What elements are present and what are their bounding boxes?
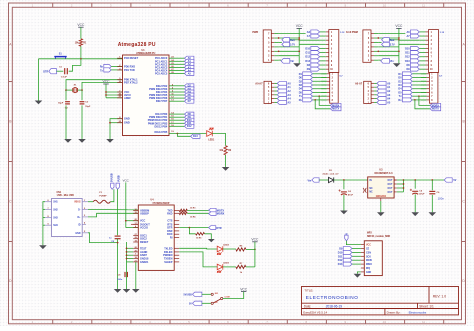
junction crystal right: [81, 89, 83, 91]
svg-text:100n: 100n: [438, 197, 445, 201]
svg-text:D10: D10: [338, 251, 343, 254]
junction stub2: [377, 50, 379, 52]
junction GND b3: [126, 254, 128, 256]
svg-text:RI: RI: [170, 237, 173, 240]
wire VUSB down (line A): [117, 189, 119, 235]
svg-text:PWR: PWR: [252, 31, 258, 34]
wire U4 GND bus (line B2): [127, 242, 134, 289]
wire D1 to U3 IN: [334, 179, 368, 181]
ground (reset button): [35, 101, 43, 105]
switch SW1 SPDT: [202, 293, 230, 305]
U4 left pin names: [133, 209, 150, 264]
svg-text:VCCIO: VCCIO: [140, 227, 148, 230]
U3 MC33269DT-3.3 regulator: [363, 168, 397, 198]
svg-text:EasyEDA V5.5.14: EasyEDA V5.5.14: [303, 311, 327, 315]
net labels A0-A5: [185, 56, 194, 75]
U4 FT232RL/SSOP IC body: [138, 199, 174, 271]
wire 3V3OUT stub: [131, 223, 138, 225]
header J2 digital 10-pin: [419, 30, 445, 73]
junction DTR: [189, 227, 191, 229]
crystal X1: [66, 85, 82, 93]
svg-text:D13: D13: [305, 60, 310, 63]
header J1 digital 10-pin: [320, 30, 346, 73]
svg-text:11: 11: [422, 320, 425, 324]
svg-text:GND: GND: [366, 272, 371, 274]
net labels D2-D7: [185, 84, 194, 103]
net label MOTX: [187, 208, 224, 212]
svg-text:D11: D11: [306, 52, 311, 55]
net labels MP2 (D9-D13): [338, 247, 361, 267]
resistor R3 1k (TXD): [179, 208, 196, 212]
junction RESET/R1: [80, 58, 82, 60]
svg-text:47uF: 47uF: [419, 193, 425, 196]
wire C1 to RESET: [69, 59, 81, 71]
net flag Rx: [100, 64, 111, 68]
svg-text:REV: 1.0: REV: 1.0: [433, 295, 447, 299]
svg-text:VCC: VCC: [77, 23, 85, 27]
svg-text:D12: D12: [338, 259, 343, 262]
wire LED2 to R6: [223, 248, 236, 250]
wire CN1 D+ to USBDP: [88, 213, 138, 217]
wire XTAL2: [82, 82, 123, 90]
net label D13: [177, 134, 200, 139]
junction C4: [343, 179, 345, 181]
net label MOTX: [330, 107, 341, 111]
wire AREF pin 21: [106, 97, 123, 99]
wire 5V rail: [404, 179, 445, 181]
svg-text:D13: D13: [405, 60, 410, 63]
svg-text:D13: D13: [193, 135, 198, 138]
junction D13: [177, 133, 179, 135]
svg-text:10: 10: [383, 320, 387, 324]
svg-text:IN: IN: [369, 180, 372, 182]
junction bus a: [298, 37, 300, 39]
fuse F1: [88, 192, 110, 203]
net label DTR (FT232): [209, 226, 222, 230]
svg-text:Vin: Vin: [308, 180, 312, 183]
svg-text:3.7V: 3.7V: [290, 44, 295, 47]
svg-text:PD1 TXD: PD1 TXD: [124, 68, 135, 72]
svg-text:100n: 100n: [117, 279, 123, 281]
ground (C2): [64, 139, 72, 143]
svg-text:VCC: VCC: [296, 24, 304, 28]
junction stub: [377, 37, 379, 39]
wire to MORX: [319, 96, 330, 105]
wire Rx to PD0: [111, 66, 122, 68]
wire R7 to VCC: [246, 266, 255, 268]
svg-text:OUT: OUT: [388, 188, 393, 190]
net flag 5V (regulator out): [444, 178, 457, 182]
header J1b serial 8-pin: [321, 73, 343, 104]
wire MP2 GND: [357, 272, 361, 274]
ground (MP2): [354, 274, 362, 278]
net flag 3.3V vertical: [345, 233, 349, 241]
svg-text:VCC: VCC: [251, 238, 259, 242]
net labels A0-A5 (header A1): [277, 81, 291, 104]
svg-text:GND: GND: [124, 121, 130, 125]
ground (line B2): [123, 289, 131, 293]
net flag Batt: [282, 38, 295, 42]
ground (CN1 shield): [39, 245, 47, 249]
junction OUT2: [403, 183, 405, 185]
wire 3.3V to MP2 VCC: [346, 241, 361, 245]
svg-text:SH2: SH2: [53, 210, 58, 212]
capacitor C4 47uF: [339, 180, 354, 211]
svg-text:SH3: SH3: [53, 217, 58, 219]
svg-text:RESET: RESET: [140, 241, 149, 244]
svg-text:NC: NC: [215, 302, 219, 304]
ground (R5): [208, 239, 215, 242]
svg-text:DTR: DTR: [43, 70, 48, 73]
junction bus a: [398, 37, 400, 39]
junction OUT1: [403, 179, 405, 181]
LED1: [207, 128, 215, 142]
svg-text:LED2: LED2: [223, 245, 229, 247]
LED2: [217, 245, 229, 255]
svg-text:CTS: CTS: [167, 220, 172, 223]
junction C6: [431, 179, 433, 181]
resistor R5 1k: [189, 228, 211, 240]
wire TXLED to LED2: [179, 247, 217, 250]
svg-text:D12: D12: [305, 56, 310, 59]
wire XTAL1: [66, 80, 123, 90]
net label MOTX: [430, 107, 441, 111]
svg-text:VBUS: VBUS: [74, 202, 81, 204]
wires header P1 to bus: [279, 34, 306, 61]
svg-text:AREF: AREF: [124, 96, 131, 100]
junction GND b4: [126, 258, 128, 260]
svg-text:Drawn By:: Drawn By:: [387, 311, 401, 315]
svg-text:TEST: TEST: [140, 247, 147, 250]
power flag VCC (AVCC): [103, 80, 111, 98]
junction GND bus: [109, 122, 111, 124]
resistor R2 10k: [219, 146, 232, 167]
ground (C4): [340, 211, 348, 215]
ground (header P1): [293, 63, 301, 67]
net flag 5V/USB (switch): [183, 292, 201, 296]
wire Vin to D1: [319, 179, 328, 181]
wire GND pin 8: [110, 119, 123, 139]
svg-text:0.1uF: 0.1uF: [61, 76, 67, 78]
svg-text:8-13 PWM: 8-13 PWM: [346, 31, 358, 34]
wire fuse to 5V/USB flag: [110, 189, 114, 201]
net label MORX: [430, 103, 441, 107]
U4 right pin names: [163, 210, 179, 264]
svg-text:D11: D11: [405, 52, 410, 55]
svg-text:MC33269DT-3.3: MC33269DT-3.3: [375, 172, 394, 175]
svg-text:1k R5: 1k R5: [196, 238, 202, 240]
ground (line A): [114, 289, 122, 293]
svg-text:RXD: RXD: [167, 212, 172, 215]
svg-text:FUSEF: FUSEF: [99, 195, 107, 197]
svg-text:CSN: CSN: [366, 252, 371, 254]
wire CN1 shield bus: [43, 202, 45, 246]
svg-text:15pF: 15pF: [85, 106, 91, 108]
svg-text:D12: D12: [405, 56, 410, 59]
svg-text:Vin: Vin: [290, 60, 294, 63]
svg-text:VCC: VCC: [366, 245, 371, 247]
U1 right pins group A0-A5: [155, 57, 184, 76]
junction stub2: [278, 50, 280, 52]
svg-text:CN1: CN1: [57, 192, 62, 194]
svg-text:Atmega328 PU: Atmega328 PU: [118, 42, 156, 48]
ground (header P2): [393, 63, 401, 67]
wire CN1 GND: [88, 233, 118, 243]
svg-text:LED1: LED1: [208, 140, 215, 142]
svg-text:DIG12 PB4: DIG12 PB4: [155, 125, 168, 128]
LED3: [217, 263, 229, 273]
power flag VCC (reset pullup): [77, 23, 85, 39]
svg-text:1k R4: 1k R4: [190, 215, 196, 218]
svg-text:LED3: LED3: [223, 263, 229, 265]
svg-text:Vin: Vin: [390, 60, 394, 63]
capacitor C9 100n: [117, 272, 127, 281]
capacitor C2 15pF: [58, 90, 70, 139]
wire LED1 to R2: [212, 134, 225, 146]
U3 ground pin: [377, 198, 385, 216]
capacitor C6 100n: [429, 180, 444, 212]
junction GND b1: [126, 247, 128, 249]
svg-text:MOTX: MOTX: [432, 108, 439, 111]
resistor R4 1k (RXD): [179, 212, 196, 218]
net flag Tx: [100, 68, 111, 73]
svg-text:3.7V: 3.7V: [390, 44, 395, 47]
U1 left pin names: [117, 56, 138, 125]
svg-text:PB7 XTAL2: PB7 XTAL2: [124, 80, 138, 84]
net label MORX: [330, 103, 341, 107]
ground (C3): [78, 139, 86, 143]
svg-text:D10: D10: [305, 47, 310, 50]
power flag VCC (LEDs): [251, 238, 259, 267]
wires header P2 to bus: [378, 34, 405, 61]
ground (C6): [429, 212, 437, 216]
svg-text:USB - Mini USB: USB - Mini USB: [57, 195, 74, 197]
wire to MOTX: [315, 100, 330, 109]
svg-text:SH4: SH4: [53, 224, 58, 227]
junction VCC bus 2: [105, 94, 107, 96]
net flag 3.7V: [382, 42, 395, 46]
ground (U1 GND pins): [106, 139, 114, 143]
wire VCC to U4 VCC: [126, 220, 139, 222]
U3 output bus: [397, 180, 404, 192]
svg-text:Date:: Date:: [304, 305, 312, 309]
wires bus to header J1: [299, 40, 319, 44]
net flag Vin (regulator): [308, 178, 320, 183]
MP2 NRF24_module_SMD: [361, 232, 391, 275]
svg-text:NRF24_module_SMD: NRF24_module_SMD: [367, 235, 390, 238]
svg-text:D11: D11: [338, 255, 343, 258]
svg-text:Batt: Batt: [390, 39, 395, 42]
U1 right pins group D8-D12: [148, 112, 185, 129]
svg-text:Batt: Batt: [290, 39, 295, 42]
resistor R1 10k: [75, 39, 87, 59]
svg-text:GND: GND: [124, 117, 130, 121]
svg-text:OUT: OUT: [388, 184, 393, 186]
svg-text:SLEEP: SLEEP: [164, 261, 173, 264]
pushbutton S1: [54, 52, 66, 59]
junction OUT3: [403, 187, 405, 189]
svg-text:VCC: VCC: [395, 24, 403, 28]
wire VCC pin 7: [106, 91, 123, 93]
svg-text:MOSI: MOSI: [366, 260, 372, 262]
net flag Batt: [382, 38, 395, 42]
svg-text:MP2: MP2: [367, 232, 372, 234]
svg-text:DIG7 PD7: DIG7 PD7: [156, 100, 168, 103]
wire LED3 to R7: [223, 266, 236, 268]
junction CN1 GND: [117, 242, 119, 244]
svg-text:ID: ID: [78, 224, 81, 226]
svg-text:CE: CE: [366, 249, 370, 251]
capacitor C3 15pF: [80, 90, 91, 139]
svg-text:5V/USB: 5V/USB: [110, 173, 113, 182]
svg-text:MISO: MISO: [366, 264, 372, 266]
junction serial Rx: [314, 99, 316, 101]
svg-text:PC6 RESET: PC6 RESET: [124, 56, 139, 60]
net labels header J1b: [299, 72, 327, 102]
svg-text:IRQ: IRQ: [366, 268, 370, 270]
junction VCC/U4: [125, 220, 127, 222]
resistor R6: [236, 246, 246, 251]
junction GND b2: [126, 251, 128, 253]
junction VCC bus 1: [105, 91, 107, 93]
svg-text:DIG13 PB5: DIG13 PB5: [155, 131, 168, 134]
junction bus c: [298, 50, 300, 52]
U1 pin DIG13 PB5: [155, 131, 207, 134]
svg-text:A0-A7: A0-A7: [355, 82, 363, 85]
svg-text:15pF: 15pF: [58, 103, 64, 105]
junction serial Tx: [418, 95, 420, 97]
net label DTR: [43, 69, 56, 74]
net flag Vin (header): [281, 59, 295, 64]
wire RESET net: [39, 58, 123, 60]
svg-text:A0-A7: A0-A7: [255, 82, 263, 85]
junction serial Tx: [318, 95, 320, 97]
junction C5: [414, 179, 416, 181]
header A2 analog (A0-A7): [355, 81, 377, 104]
net flag 5V/USB vertical: [110, 173, 114, 189]
net flag 3.7V: [282, 42, 295, 46]
svg-text:Sheet: 1/1: Sheet: 1/1: [419, 305, 434, 309]
svg-text:DTR: DTR: [216, 227, 221, 230]
net flag 5V (switch): [189, 301, 202, 305]
svg-text:11: 11: [422, 4, 425, 8]
svg-text:TITLE:: TITLE:: [304, 289, 313, 293]
svg-text:VCC: VCC: [140, 220, 145, 223]
net flag Vin (header): [381, 59, 395, 64]
svg-text:OUT: OUT: [388, 180, 393, 182]
svg-text:1-12: 1-12: [440, 32, 445, 34]
svg-text:USBDP: USBDP: [140, 212, 149, 215]
svg-text:SCK: SCK: [366, 256, 371, 258]
wire VCCIO: [126, 227, 139, 229]
junction VCC leds: [254, 249, 256, 251]
svg-text:VCC: VCC: [240, 287, 248, 291]
header P1 power (PWR): [252, 30, 278, 62]
svg-text:MORX: MORX: [217, 213, 225, 216]
wire CN1 D- to USBDM: [88, 209, 138, 211]
power flag VCC (header P2): [395, 24, 403, 63]
power flag VCC (header P1): [296, 24, 304, 63]
header P2 power (8-13 PWM): [346, 30, 378, 62]
net flag VUSB vertical: [116, 175, 121, 189]
svg-text:1k R3: 1k R3: [190, 208, 196, 210]
wire to MOTX: [415, 100, 430, 109]
svg-text:TXLED: TXLED: [164, 247, 172, 250]
svg-text:GND/ADJ: GND/ADJ: [376, 195, 387, 198]
svg-text:MOTX: MOTX: [332, 108, 339, 111]
U1 right pins group D2-D7: [149, 83, 184, 103]
svg-text:SH1: SH1: [53, 202, 58, 204]
junction crystal left: [65, 89, 67, 91]
svg-text:ELECTRONOOBINO: ELECTRONOOBINO: [306, 295, 359, 300]
net labels header J2: [405, 30, 419, 71]
CN1 USB connector: [45, 192, 88, 237]
svg-text:NO: NO: [215, 293, 219, 295]
svg-text:2018-06-19: 2018-06-19: [326, 305, 343, 309]
diode D1 diode_smd_m7: [323, 170, 340, 183]
svg-text:GND21: GND21: [140, 261, 149, 264]
wires bus to header J2: [399, 40, 419, 44]
svg-text:PD0 RXD: PD0 RXD: [124, 65, 135, 69]
wire TEST down: [135, 262, 137, 289]
svg-text:D10: D10: [405, 47, 410, 50]
capacitor C1 0.1uF: [57, 67, 68, 79]
wire to MORX: [419, 96, 430, 105]
resistor R7 1k: [236, 263, 246, 274]
junction bus b: [298, 39, 300, 41]
junction bus b: [398, 39, 400, 41]
power flag VCC (switch): [223, 287, 248, 298]
ground (C5): [411, 212, 419, 216]
capacitor C5 47uF: [410, 180, 425, 212]
net label VCC (FT232 supply): [123, 179, 130, 228]
svg-text:NC: NC: [369, 188, 373, 190]
svg-text:PC5 ADC5: PC5 ADC5: [155, 73, 168, 76]
net labels header J2b: [398, 72, 426, 102]
svg-text:VCC: VCC: [123, 179, 130, 183]
svg-text:diode_smd_m7: diode_smd_m7: [323, 174, 340, 176]
svg-text:D-: D-: [78, 210, 81, 212]
wire RXLED to LED3: [179, 252, 217, 267]
svg-text:Electronoobs: Electronoobs: [409, 311, 427, 315]
net label MORX: [187, 212, 224, 216]
svg-text:D12: D12: [187, 125, 192, 128]
wire DTR: [179, 227, 208, 229]
wire Tx to PD1: [111, 69, 122, 71]
svg-text:1-12: 1-12: [340, 32, 345, 34]
U1 ATmega328P-PU IC body: [123, 49, 170, 136]
net labels header J1: [305, 30, 319, 71]
title block text: [303, 289, 446, 315]
wire GND pin 22: [110, 122, 123, 124]
wire R6 to VCC: [246, 248, 255, 250]
svg-text:VCC: VCC: [103, 80, 111, 84]
net labels A0-A5 (header A2): [377, 81, 391, 104]
title block: [302, 287, 459, 315]
junction serial Rx: [414, 99, 416, 101]
svg-text:5V: 5V: [189, 304, 192, 306]
svg-text:5V: 5V: [453, 179, 456, 182]
net labels D8-D12: [185, 112, 194, 128]
svg-text:VUSB: VUSB: [118, 175, 121, 182]
junction bus c: [398, 50, 400, 52]
svg-text:47uF: 47uF: [348, 193, 354, 196]
wire reset button to ground: [38, 59, 40, 101]
ground (R2): [222, 167, 230, 171]
svg-text:D13: D13: [338, 263, 343, 266]
junction stub: [278, 37, 280, 39]
wire AVCC pin 20: [106, 94, 123, 96]
